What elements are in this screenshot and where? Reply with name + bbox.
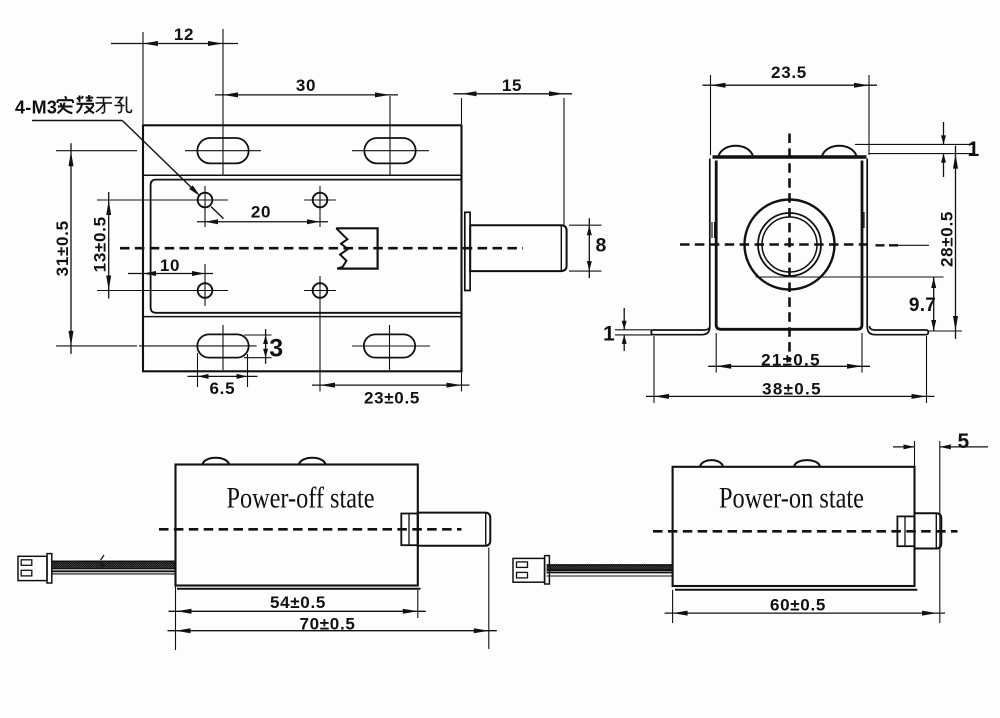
lower-right hole vertical / 23-dim extension: [319, 276, 321, 392]
power-on dome 2: [794, 460, 820, 467]
power-off wire braid: [52, 561, 176, 568]
svg-text:8: 8: [596, 235, 608, 257]
ext 70 right: [488, 548, 490, 650]
ext dome top: [855, 143, 975, 145]
side view vertical centerline: [788, 134, 791, 363]
left seam tick b: [714, 222, 716, 238]
ext 31 bottom: [56, 345, 137, 347]
dim 20: [197, 221, 328, 223]
screw dome left: [719, 146, 754, 157]
inner solenoid body outline: [151, 180, 462, 313]
power-on shaft: [915, 513, 942, 548]
dim 3: [265, 329, 267, 364]
front view horizontal centerline: [120, 247, 523, 250]
13-dim upper extension through holes: [97, 199, 228, 201]
ext 15 right to shaft tip: [563, 98, 565, 225]
dim 23.5: [703, 84, 878, 86]
svg-text:70±0.5: 70±0.5: [299, 614, 355, 633]
power-on wire braid: [547, 565, 673, 570]
power-on centerline: [653, 530, 958, 533]
slot2 center horizontal: [352, 150, 429, 152]
zigzag spring edge: [336, 228, 348, 268]
front view outer body plate: [143, 125, 462, 371]
dim 30: [215, 94, 398, 96]
svg-text:23.5: 23.5: [771, 63, 807, 82]
ext 60/5 right long: [939, 441, 941, 623]
upper-right hole vertical: [319, 186, 321, 227]
ext 8 top: [569, 224, 602, 226]
power-off shaft: [418, 513, 491, 546]
svg-text:54±0.5: 54±0.5: [270, 593, 326, 612]
lower-right hole horizontal: [304, 290, 336, 292]
lower-left hole vertical: [204, 264, 206, 306]
spring latch box with zigzag: [336, 228, 377, 268]
connector pin 1 power-on: [517, 562, 528, 568]
ext 38 left: [653, 336, 655, 403]
ext 28 bottom: [929, 330, 963, 332]
svg-text:10: 10: [160, 256, 180, 275]
dim 70: [168, 630, 497, 632]
svg-text:28±0.5: 28±0.5: [938, 211, 957, 267]
dim 38: [646, 395, 935, 397]
connector plate power-on: [545, 556, 550, 584]
connector body power-on: [513, 558, 545, 582]
dim 23: [312, 384, 470, 386]
connector pin 2: [21, 570, 32, 576]
power-off centerline: [159, 528, 462, 531]
CJK glyph 装: [77, 95, 95, 113]
svg-text:6.5: 6.5: [210, 379, 236, 398]
dim 12: [111, 43, 238, 45]
ext 21 left: [715, 333, 717, 373]
top plate thick edge: [713, 155, 867, 159]
power-on base second line: [675, 589, 917, 591]
13-dim lower extension through holes: [97, 290, 228, 292]
coil ring outer: [758, 213, 821, 276]
power-off second wire upper: [52, 570, 176, 572]
CJK glyph 安: [58, 96, 74, 113]
ext 23 right: [461, 373, 463, 392]
ext 12 right through slot1: [222, 29, 224, 175]
dim 9.7: [933, 277, 935, 331]
power-off flange inner line: [408, 514, 410, 546]
right seam tick: [863, 212, 865, 228]
svg-text:21±0.5: 21±0.5: [761, 351, 821, 370]
svg-text:1: 1: [968, 138, 980, 161]
side view horizontal centerline: [680, 243, 868, 246]
ext 3 bottom: [244, 357, 272, 359]
dim 28: [955, 146, 957, 339]
ext 23.5 right: [868, 75, 870, 155]
left seam tick a: [711, 222, 713, 238]
power-off body: [176, 465, 418, 586]
leader line 4-M3 label: [32, 120, 122, 122]
right wall outer + right flange: [867, 159, 928, 335]
connector plate power-off: [47, 554, 52, 583]
bottom-right mounting slot: [364, 334, 415, 357]
top-right mounting slot: [364, 138, 415, 163]
svg-text:31±0.5: 31±0.5: [53, 220, 72, 276]
slot4 center horizontal: [352, 345, 430, 347]
svg-text:13±0.5: 13±0.5: [91, 216, 110, 272]
ext 15 left: [461, 98, 463, 124]
wire pointer mark: [101, 555, 104, 560]
CJK glyph 孔: [115, 97, 132, 113]
plunger shaft: [470, 225, 566, 271]
ext 23.5 left: [710, 75, 712, 155]
M3 hole lower-left: [198, 283, 213, 298]
ext 12 left / body edge up: [142, 32, 144, 124]
dim 13: [108, 192, 110, 299]
svg-text:4-M3: 4-M3: [15, 98, 57, 118]
dim 6.5: [188, 375, 258, 377]
ext 30 right through slot2: [389, 96, 391, 175]
coil hole outer circle: [745, 200, 835, 290]
dim 5: [893, 446, 915, 448]
centerline tail dashes: [876, 244, 899, 246]
M3 hole upper-left: [198, 193, 213, 208]
bottom-left mounting slot: [197, 334, 248, 357]
top-left mounting slot: [197, 138, 248, 163]
dim 1 (left flange thickness): [615, 329, 652, 331]
svg-text:5: 5: [958, 430, 970, 453]
power-off dome 2: [299, 458, 326, 465]
svg-text:12: 12: [174, 25, 194, 44]
ext 60 left: [672, 590, 674, 623]
ext 5 left to body corner: [914, 441, 916, 466]
left wall outer + left flange: [651, 159, 710, 335]
ext 3 top: [244, 334, 272, 336]
ext 54 right: [417, 590, 419, 618]
dim 60: [665, 612, 945, 614]
power-off plunger flange: [401, 514, 418, 546]
power-on plunger flange: [897, 516, 914, 546]
svg-text:38±0.5: 38±0.5: [762, 379, 822, 398]
power-on body: [673, 467, 915, 586]
plunger cap line: [560, 225, 562, 271]
ext 6.5 right: [247, 354, 249, 387]
slot3 center vertical: [222, 325, 224, 370]
dim 54: [169, 610, 426, 612]
upper-right hole horizontal: [304, 199, 336, 201]
centerline thin tail: [898, 244, 929, 246]
slot4 center vertical: [389, 325, 391, 370]
M3 hole lower-right: [313, 283, 328, 298]
power-on dome 1: [700, 460, 723, 467]
connector pin 2 power-on: [517, 572, 528, 578]
svg-text:20: 20: [251, 203, 271, 222]
power-on shaft cap line: [935, 513, 937, 548]
M3 hole upper-right: [313, 193, 328, 208]
svg-text:Power-on state: Power-on state: [719, 482, 864, 515]
svg-text:23±0.5: 23±0.5: [364, 388, 420, 407]
coil ring inner: [762, 217, 817, 272]
svg-text:9.7: 9.7: [909, 295, 936, 316]
screw dome right: [822, 146, 857, 157]
CJK glyph 牙: [96, 98, 113, 114]
ext 31 top: [56, 150, 137, 152]
slot3 center horizontal: [139, 345, 257, 347]
ext plate top: [869, 153, 975, 155]
dim 15: [454, 93, 573, 95]
dim 10: [128, 273, 213, 275]
svg-text:30: 30: [296, 76, 316, 95]
power-off base second line: [177, 588, 421, 590]
power-off second wire lower: [52, 573, 176, 575]
ext 9.7 top: [756, 276, 944, 278]
side body square: [716, 161, 862, 330]
ext 38 right: [926, 336, 928, 403]
power-on second wire lower: [547, 575, 673, 577]
ext 21 right: [861, 333, 863, 373]
svg-text:60±0.5: 60±0.5: [770, 595, 826, 614]
power-off shaft cap line: [485, 513, 487, 546]
top fold line: [143, 174, 462, 176]
upper-left hole vertical: [204, 186, 206, 227]
power-on second wire upper: [547, 571, 673, 573]
ext 6.5 left: [197, 353, 199, 387]
svg-text:Power-off state: Power-off state: [227, 482, 375, 515]
left edge extension down: [175, 586, 177, 651]
plunger guide flange strip: [465, 212, 470, 290]
dim 8: [588, 218, 590, 278]
connector body power-off: [18, 556, 47, 580]
bottom fold line: [143, 316, 462, 318]
svg-text:15: 15: [502, 76, 522, 95]
ext 8 bottom: [569, 270, 602, 272]
dim 31: [70, 143, 72, 354]
power-on flange inner line: [904, 516, 906, 546]
slot1 center horizontal: [185, 150, 261, 152]
power-off dome 1: [203, 458, 230, 465]
svg-text:1: 1: [603, 323, 615, 346]
dim 21: [708, 365, 870, 367]
connector pin 1: [21, 560, 32, 566]
